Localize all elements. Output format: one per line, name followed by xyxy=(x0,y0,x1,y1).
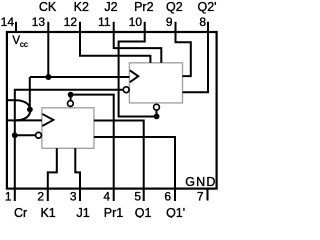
svg-text:CK: CK xyxy=(39,0,57,14)
svg-text:GND: GND xyxy=(185,175,216,189)
svg-text:14: 14 xyxy=(1,15,15,29)
svg-text:3: 3 xyxy=(70,190,77,204)
svg-text:2: 2 xyxy=(37,190,44,204)
svg-text:5: 5 xyxy=(134,190,141,204)
svg-text:J1: J1 xyxy=(76,206,89,218)
svg-text:cc: cc xyxy=(20,40,28,49)
svg-text:Q1: Q1 xyxy=(135,206,152,218)
svg-text:Pr2: Pr2 xyxy=(134,0,154,14)
svg-text:10: 10 xyxy=(129,15,143,29)
svg-text:J2: J2 xyxy=(104,0,117,14)
svg-text:Q2': Q2' xyxy=(197,0,216,14)
svg-text:4: 4 xyxy=(103,190,110,204)
svg-text:Q1': Q1' xyxy=(166,206,185,218)
svg-text:12: 12 xyxy=(64,15,78,29)
svg-text:1: 1 xyxy=(5,190,12,204)
svg-text:11: 11 xyxy=(98,15,111,29)
svg-text:8: 8 xyxy=(199,15,206,29)
svg-text:9: 9 xyxy=(166,15,173,29)
svg-text:K2: K2 xyxy=(74,0,89,14)
svg-text:6: 6 xyxy=(164,190,171,204)
svg-text:13: 13 xyxy=(32,15,46,29)
svg-text:7: 7 xyxy=(197,190,204,204)
svg-text:Pr1: Pr1 xyxy=(104,206,124,218)
svg-text:Cr: Cr xyxy=(14,206,27,218)
svg-text:K1: K1 xyxy=(40,206,55,218)
svg-text:Q2: Q2 xyxy=(166,0,183,14)
